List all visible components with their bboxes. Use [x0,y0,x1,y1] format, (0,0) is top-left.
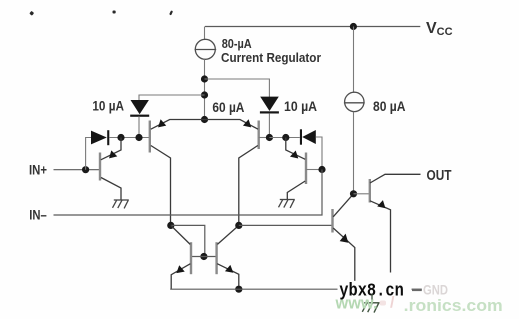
transistor Q3 collector [239,146,258,226]
transistor Q8 bar [369,179,371,203]
transistor Q4 emitter [286,138,305,160]
wire mirror base row [192,256,217,258]
svg-text:IN+: IN+ [29,161,47,177]
node Q4 base [318,166,325,173]
wire Q7 base from mirror [239,224,332,226]
node rail [235,286,242,293]
transistor Q1 collector [101,178,121,201]
watermark pink speck [380,301,387,306]
wire regulator bottom vertical [204,59,206,119]
svg-text:GND: GND [423,281,448,297]
speck 3 [169,10,173,15]
transistor Q4 base wire [306,169,322,171]
transistor Q2 collector [151,146,171,226]
svg-text:10 µA: 10 µA [284,99,317,114]
transistor Q2 bar [149,121,151,153]
svg-text:60 µA: 60 µA [212,100,244,115]
ground G3 [362,303,379,313]
transistor Q8 collector to OUT [370,174,421,183]
svg-text:Current Regulator: Current Regulator [221,51,321,65]
node mirror right [235,222,242,229]
transistor Q7 bar [331,209,333,233]
diode D4 right 10uA [260,97,279,111]
current source CS2 80uA [345,92,364,111]
wire VCC top rail [205,26,420,28]
ground G1 [113,200,129,208]
node D2 in [282,134,289,141]
wire D4 cathode to node row [268,113,270,137]
speck 1 [29,11,34,16]
transistor Q1 bar [99,153,101,181]
wire branch to right 10uA diode [205,79,270,97]
ground G2 [279,200,295,208]
transistor Q3 bar [258,121,260,150]
wire node row right [269,137,299,139]
ground G3 stub [371,294,373,303]
transistor Q6 emitter [217,264,239,290]
speck 2 [113,11,116,14]
transistor Q5 bar [190,242,192,274]
svg-text:.ronics.com: .ronics.com [404,297,503,315]
transistor Q7 collector [333,194,353,217]
node C 60uA tail [201,116,208,123]
transistor Q4 bar [305,153,307,185]
wire mirror left node to center [171,225,205,256]
wire D1 cathode to node row [109,137,149,139]
diode D1 [91,131,107,145]
node Q8 base [350,190,357,197]
transistor Q4 collector [287,181,305,200]
svg-text:80-µA: 80-µA [222,36,252,51]
svg-text:OUT: OUT [427,168,452,184]
wire 80uA source to Q8 base node [353,112,355,194]
current regulator CS1 [195,39,215,59]
transistor Q3 emitter [205,120,259,130]
wire IN+ riser to D1 anode [86,138,91,170]
wire IN+ lead [54,169,100,171]
wire IN- line [54,170,323,216]
node D1 out [117,134,124,141]
svg-text:10 µA: 10 µA [92,99,124,114]
diode D2 [302,130,316,144]
transistor Q1 emitter [101,138,121,160]
watermark white halo [338,281,412,299]
wire regulator top stub [204,27,206,40]
transistor Q6 bar [215,242,217,274]
transistor Q2 emitter [151,120,205,130]
node B [201,91,208,98]
diode D3 left 10uA [131,100,149,114]
wire D3 cathode to node row [138,116,140,137]
node mirror center [200,253,207,260]
svg-text:IN–: IN– [29,207,47,223]
transistor Q5 collector [171,225,190,244]
transistor Q6 collector [217,225,238,244]
wire branch to left 10uA diode [139,95,205,101]
transistor Q8 emitter [370,201,391,289]
node VCC tap [350,23,357,30]
wire bottom rail [170,288,422,290]
svg-text:www.: www. [335,295,378,313]
wire Q8 base lead [354,193,369,195]
transistor Q3 base wire [259,137,270,139]
svg-text:/: / [390,294,395,311]
node IN+ [82,166,89,173]
transistor Q5 emitter [171,264,190,290]
wire rail dash segment [412,289,422,291]
wire VCC to 80uA source [353,27,355,93]
transistor Q7 emitter [333,228,355,289]
svg-text:80 µA: 80 µA [373,99,406,114]
wire D2 anode to Q4 base node [316,137,322,170]
node left diode junction [135,134,142,141]
node mirror left [167,222,174,229]
node A [201,75,208,82]
node right diode junction [266,134,273,141]
